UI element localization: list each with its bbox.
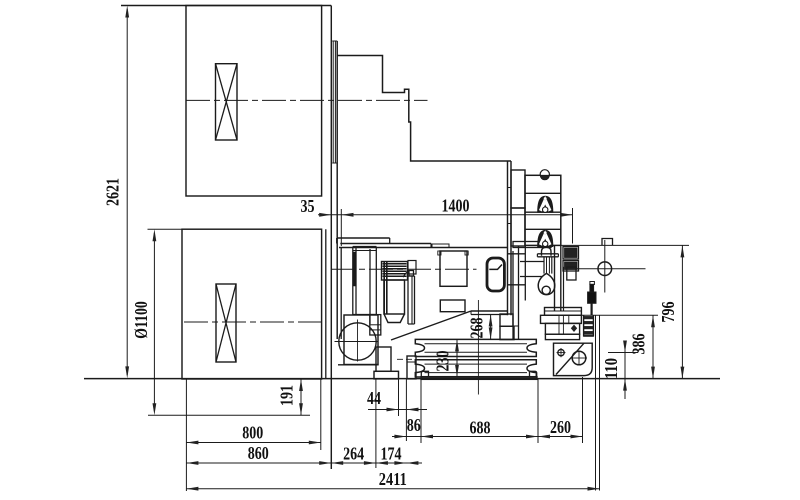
body underside slant [391,311,471,340]
extension line 174b [375,379,377,468]
notch box on table line [602,239,613,246]
plunger cylinder [590,282,595,285]
machine foot plate [374,371,399,379]
underside box [440,300,465,312]
svg-text:174: 174 [381,444,402,464]
index circle [598,262,612,276]
pulley band lower [415,360,536,377]
short centerline segment [397,358,414,360]
svg-text:191: 191 [277,385,297,406]
spindle plate stack [382,262,408,281]
dimension 796 [681,245,683,378]
lower tank body [182,229,322,379]
bracket bolt [558,349,564,355]
tool shank [543,257,545,274]
vertical rail double line [507,161,509,315]
svg-text:688: 688 [470,417,491,437]
spindle centerline [331,268,477,270]
turret box [525,175,561,245]
svg-text:35: 35 [301,196,315,216]
svg-text:264: 264 [343,443,364,463]
lower right box [500,326,514,339]
machine left edge [340,248,342,340]
extension line 44a [398,379,400,416]
turret top pin [540,170,549,179]
tool holder bullet [542,247,552,256]
svg-text:2621: 2621 [103,178,123,206]
floor line [84,378,720,380]
turret side box lower [511,208,525,246]
pulley base plate [421,377,537,380]
left lower block [370,315,381,335]
extension tick 575 [572,208,574,244]
extension line left [185,379,187,491]
dimension diameter 1100 [153,233,155,411]
turret clamp lower [538,231,553,247]
body bottom edge [471,310,508,312]
turret divider 2 [525,211,561,213]
dimension 268 [490,315,492,340]
dimension row 86-688-260 [392,436,583,438]
lower tank crossed box [216,284,236,362]
pulley mount bracket [407,356,416,379]
rear panel edge line [330,6,332,470]
upper tank centerline [186,99,428,101]
machine rear face line [336,41,338,339]
slide ref line 386 [581,314,658,316]
dimension 800 [186,442,320,444]
carriage column [512,251,514,340]
dimension 2411 [186,488,599,490]
turret flange plate [513,242,551,248]
svg-text:1400: 1400 [442,196,470,216]
spindle nose arc [403,271,409,277]
top reference line [121,5,331,7]
svg-text:386: 386 [629,334,649,355]
dimension row 860-264-174 [186,462,422,464]
stepped column profile [337,56,511,162]
svg-text:Ø1100: Ø1100 [131,301,151,339]
body top edge [339,247,508,249]
tool diamond tip [538,273,555,294]
svg-text:2411: 2411 [379,469,407,489]
extension line 688b [537,379,539,443]
table reference line [561,244,689,246]
lower tank top edge extension [148,228,183,230]
quill column [407,276,409,324]
dimension 230 [456,339,458,377]
cross slide stack [545,308,582,316]
lower tank centerline [184,321,326,323]
small top tab [432,244,449,248]
svg-text:110: 110 [601,358,621,379]
support bracket [554,343,593,375]
dimension 110 [624,341,626,399]
turret clamp upper [538,196,553,212]
extension line 800 [320,379,322,450]
svg-text:260: 260 [550,417,571,437]
slide diamond marker [571,325,577,332]
dimension line 35-1400 [318,214,573,216]
pulley base foot right [530,371,537,376]
bolt upper [563,247,579,260]
window rounded rect [487,258,504,291]
front strip rail [332,41,334,163]
bolt lower [563,261,579,272]
dimension 191 [300,379,302,415]
front panel [440,251,467,286]
turret side box upper [511,170,525,208]
bracket circle [572,351,586,365]
lower reference line [148,414,310,416]
index circle centerline [577,268,646,270]
lower tank outer edge [325,229,327,378]
extension line right a [595,315,597,490]
arrow at 331 [319,213,331,217]
turret lower column [554,245,556,311]
chuck body [384,280,405,314]
dimension 386 [652,315,654,378]
turret divider 3 [525,228,561,230]
pulley centerline [477,300,479,395]
extension tick 341 [340,209,342,246]
extension line right b [599,315,601,490]
extension line 86a [405,379,407,441]
machine foot column [376,347,391,371]
svg-text:268: 268 [467,318,487,339]
svg-text:44: 44 [367,388,381,408]
top plate B [340,243,431,245]
panel tab right [465,251,468,255]
bracket ref tick 110 [608,352,638,354]
upper tank body [186,6,322,197]
svg-text:860: 860 [248,443,269,463]
small fitting box [567,267,576,280]
turret divider 1 [525,192,561,194]
lower small box [500,314,513,326]
arrow at 341 [342,213,354,217]
svg-text:86: 86 [407,415,421,435]
dimension 44 [368,409,427,411]
pulley base foot left [421,371,428,376]
arrow at 575 [561,213,573,217]
dimension 2621 [126,9,128,375]
top plate A [337,237,390,239]
svg-text:800: 800 [242,423,263,443]
gearbox box [344,315,378,365]
svg-text:230: 230 [433,351,453,372]
upper tank crossed box [216,64,238,140]
svg-text:796: 796 [658,302,678,323]
panel tab left [438,251,441,255]
headstock box [352,247,354,315]
extension line 688a [420,379,422,443]
extension line 260b [582,377,584,443]
spring element [583,315,585,336]
carriage divider extra [520,261,544,263]
handwheel circle [339,323,376,360]
pulley band upper [415,339,536,356]
gearbox bottom edge [338,364,379,366]
